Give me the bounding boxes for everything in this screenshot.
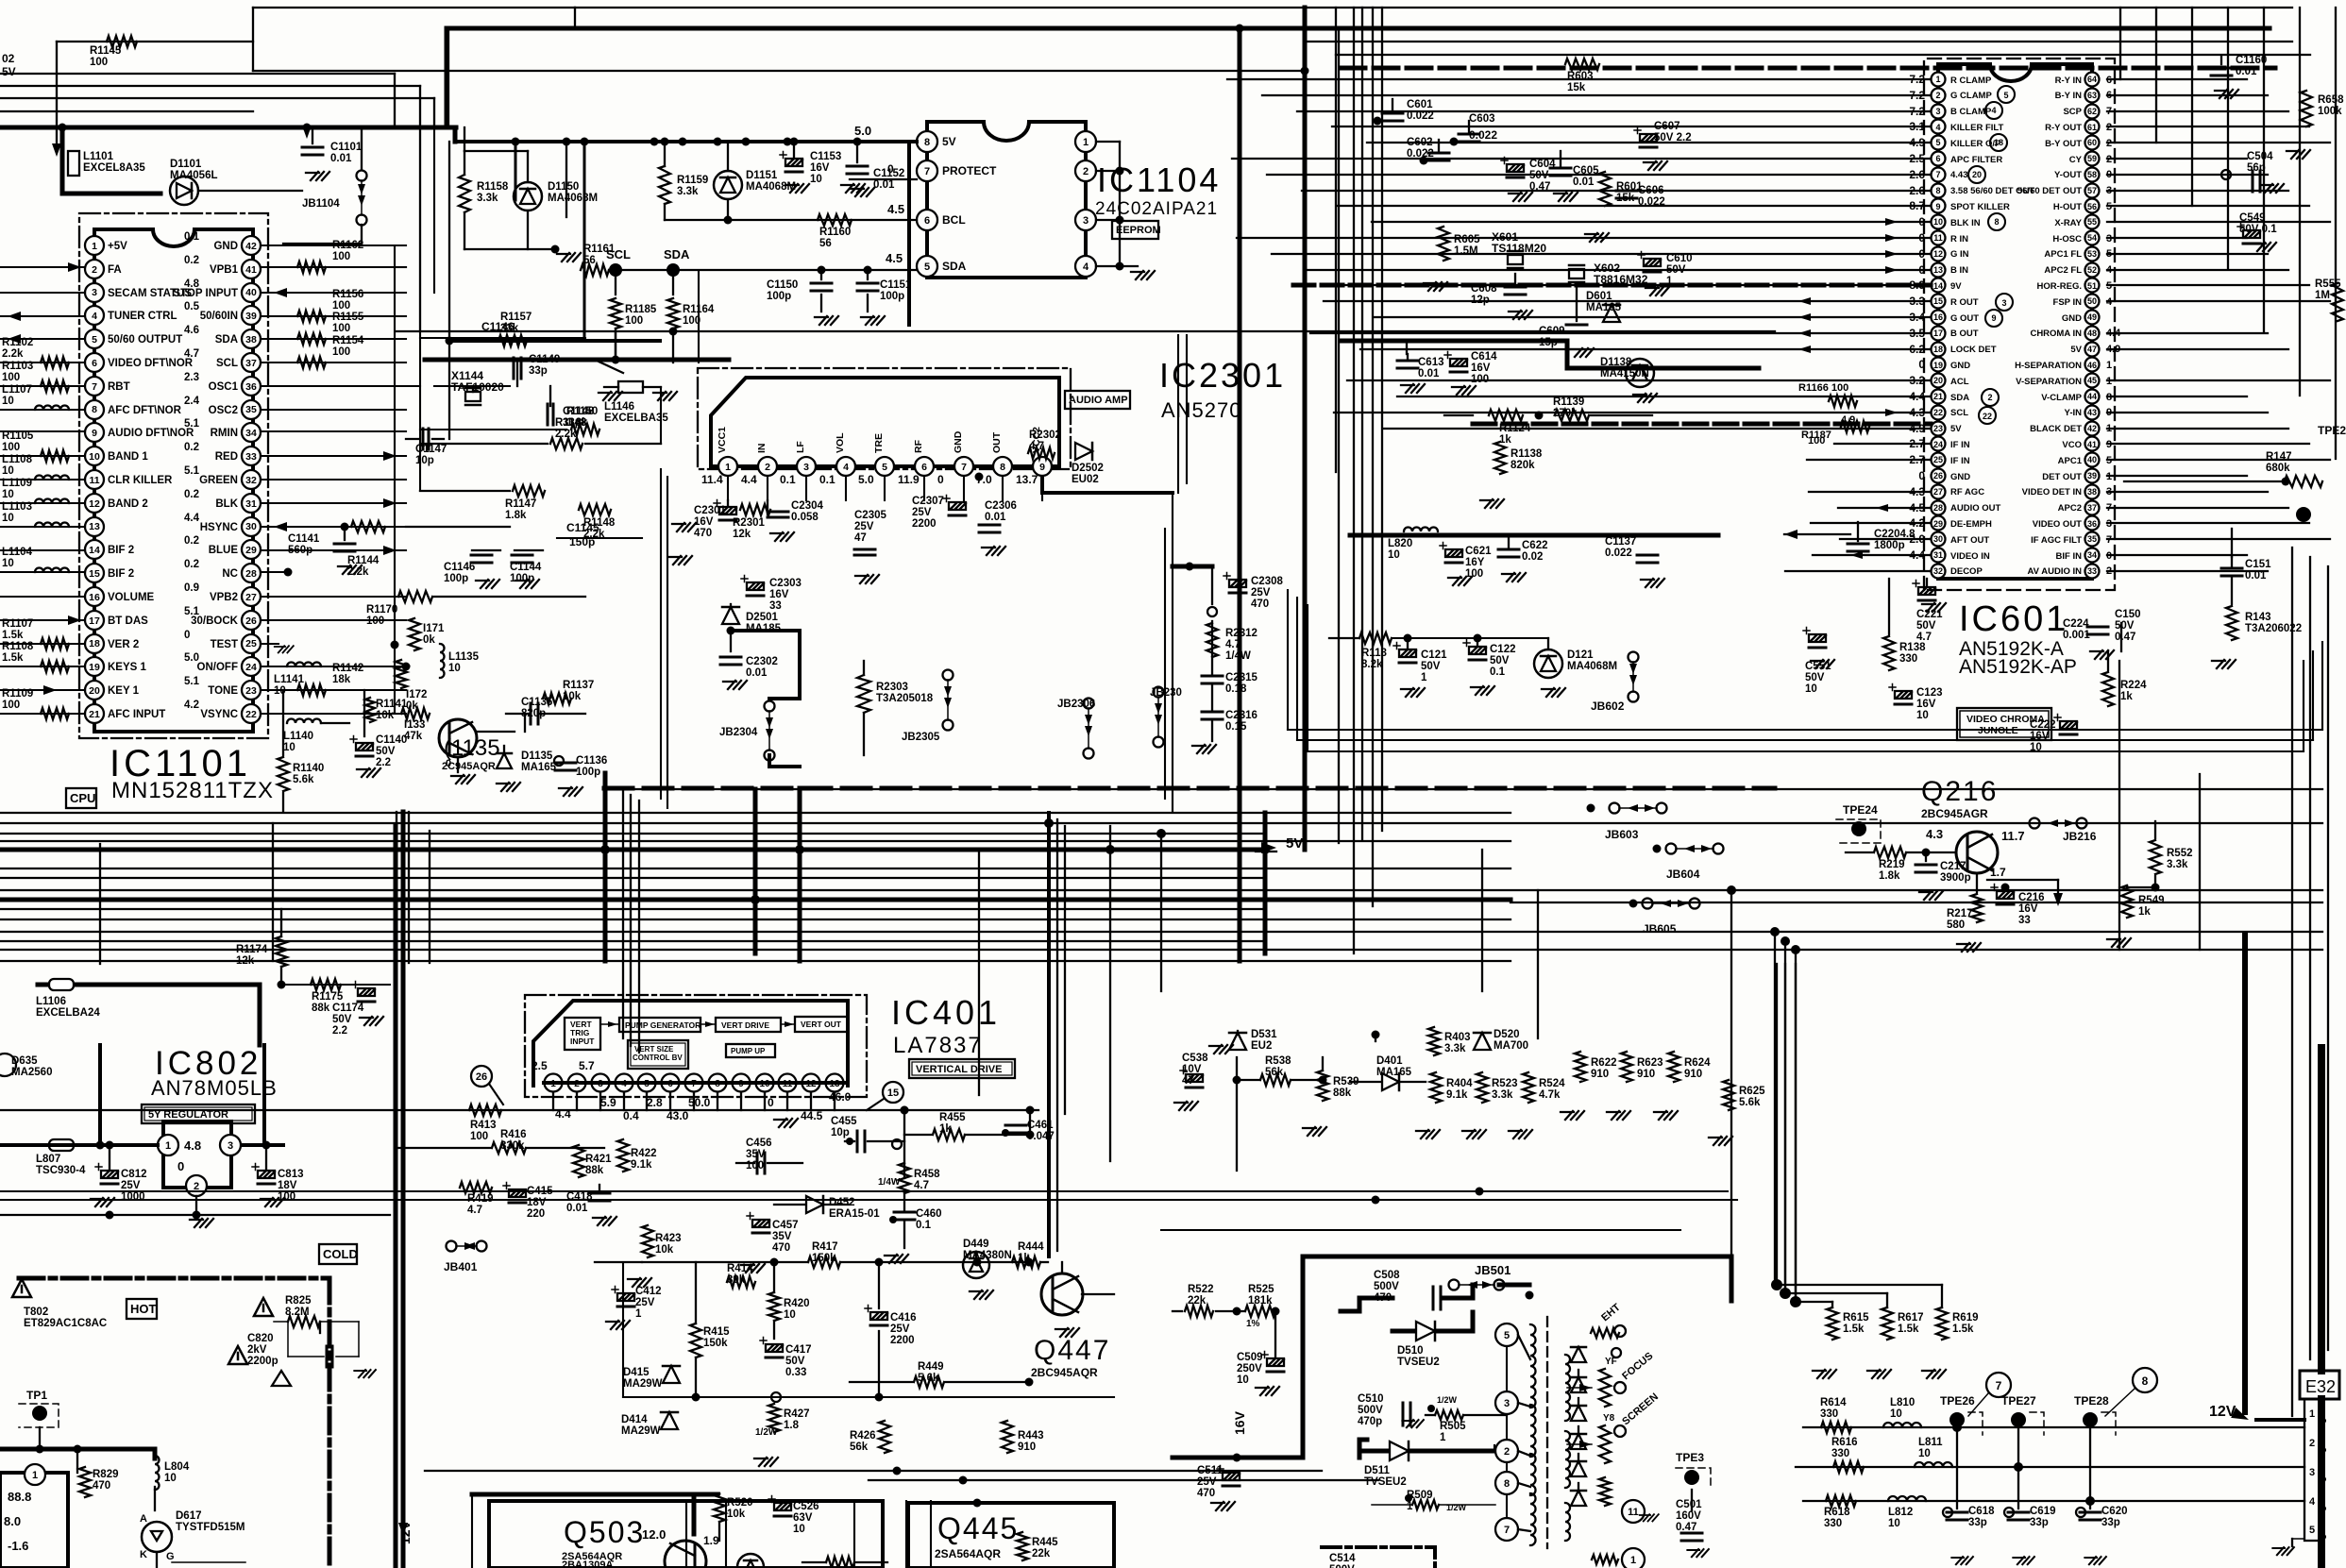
svg-text:14: 14 [1933, 281, 1943, 291]
svg-text:1.7: 1.7 [1990, 866, 2006, 879]
svg-text:0.01: 0.01 [566, 1203, 588, 1214]
svg-text:X-RAY: X-RAY [2054, 218, 2082, 228]
svg-text:13: 13 [1933, 265, 1943, 275]
svg-text:42: 42 [2087, 424, 2097, 433]
svg-text:32: 32 [245, 475, 257, 486]
svg-text:1.5k: 1.5k [1952, 1324, 1974, 1335]
svg-text:0.5: 0.5 [184, 301, 200, 312]
svg-text:AFC INPUT: AFC INPUT [108, 709, 165, 720]
svg-text:INPUT: INPUT [570, 1037, 595, 1046]
svg-text:I171: I171 [423, 623, 445, 634]
svg-text:-1.6: -1.6 [8, 1539, 28, 1553]
svg-text:33p: 33p [2101, 1517, 2120, 1528]
svg-text:2kV: 2kV [247, 1344, 267, 1356]
svg-text:R552: R552 [2167, 848, 2193, 859]
svg-text:5: 5 [1935, 138, 1940, 147]
svg-text:330: 330 [1899, 653, 1917, 665]
svg-text:1: 1 [1666, 276, 1673, 287]
svg-text:B-Y IN: B-Y IN [2055, 91, 2082, 101]
svg-text:21: 21 [1933, 392, 1943, 401]
svg-text:L1101: L1101 [83, 151, 114, 162]
svg-text:1.8k: 1.8k [566, 417, 588, 429]
svg-text:R2312: R2312 [1225, 628, 1257, 639]
svg-text:42: 42 [245, 241, 257, 252]
svg-text:R426: R426 [850, 1430, 876, 1442]
svg-text:330k: 330k [500, 1140, 525, 1152]
svg-text:910: 910 [1684, 1069, 1702, 1080]
svg-text:25V: 25V [1197, 1476, 1217, 1488]
svg-text:29: 29 [245, 545, 257, 556]
svg-text:33: 33 [769, 600, 782, 612]
svg-text:BCL: BCL [942, 213, 966, 227]
svg-text:16V: 16V [1232, 1410, 1247, 1435]
svg-text:5.1: 5.1 [184, 606, 200, 617]
svg-text:100: 100 [2, 700, 20, 711]
svg-text:STOP INPUT: STOP INPUT [173, 288, 238, 299]
svg-text:1/4W: 1/4W [1225, 650, 1251, 662]
svg-text:R523: R523 [1492, 1078, 1518, 1089]
svg-text:3: 3 [2309, 1467, 2315, 1478]
svg-text:ON/OFF: ON/OFF [197, 662, 238, 673]
svg-text:VER 2: VER 2 [108, 639, 139, 650]
svg-text:7: 7 [92, 381, 97, 393]
svg-text:5.9: 5.9 [600, 1096, 616, 1109]
svg-text:H-OUT: H-OUT [2053, 202, 2082, 212]
svg-text:I172: I172 [406, 689, 427, 700]
svg-text:1: 1 [1421, 672, 1427, 683]
svg-text:VIDEO IN: VIDEO IN [1950, 551, 1990, 562]
svg-text:35: 35 [2087, 534, 2097, 544]
svg-text:TPE24: TPE24 [1843, 803, 1878, 817]
svg-text:NC: NC [222, 568, 238, 580]
svg-text:100: 100 [332, 251, 350, 262]
svg-text:1: 1 [1440, 1432, 1446, 1443]
svg-text:10: 10 [2, 396, 14, 407]
svg-text:0.01: 0.01 [746, 667, 768, 679]
svg-text:56: 56 [583, 255, 596, 266]
svg-text:6: 6 [924, 215, 930, 227]
svg-text:R1162: R1162 [332, 240, 363, 251]
svg-text:30: 30 [1933, 534, 1943, 544]
svg-text:100: 100 [1465, 568, 1483, 580]
svg-text:COLD: COLD [323, 1247, 358, 1261]
svg-text:250V: 250V [1237, 1363, 1262, 1374]
svg-text:11: 11 [89, 475, 99, 486]
svg-text:Y8: Y8 [1603, 1413, 1615, 1424]
svg-text:13: 13 [89, 521, 100, 532]
svg-text:Q216: Q216 [1921, 776, 1998, 807]
svg-text:10: 10 [1805, 683, 1817, 695]
svg-text:D511: D511 [1364, 1465, 1390, 1476]
svg-text:JB603: JB603 [1605, 828, 1639, 841]
svg-text:1: 1 [2106, 360, 2112, 371]
svg-text:OSC1: OSC1 [209, 381, 239, 393]
svg-text:R615: R615 [1843, 1312, 1869, 1324]
svg-text:R1160: R1160 [819, 227, 851, 238]
svg-text:51: 51 [2087, 281, 2097, 291]
svg-text:AUDIO AMP: AUDIO AMP [1069, 395, 1128, 406]
svg-text:47: 47 [2087, 345, 2097, 354]
svg-text:34: 34 [2087, 550, 2097, 560]
svg-text:0.01: 0.01 [2245, 570, 2267, 582]
svg-text:10: 10 [1388, 549, 1400, 561]
svg-text:58: 58 [2087, 170, 2097, 179]
svg-text:R618: R618 [1824, 1507, 1850, 1518]
svg-text:BAND 1: BAND 1 [108, 451, 148, 463]
svg-text:3.3k: 3.3k [1444, 1043, 1466, 1054]
svg-text:VIDEO DFT\NOR: VIDEO DFT\NOR [108, 358, 194, 369]
svg-text:910: 910 [1591, 1069, 1609, 1080]
svg-text:C606: C606 [1638, 185, 1664, 196]
svg-text:JB401: JB401 [444, 1260, 478, 1273]
svg-text:1: 1 [1935, 75, 1940, 84]
svg-text:C224: C224 [2063, 618, 2089, 630]
svg-text:63: 63 [2087, 91, 2097, 100]
svg-text:0.1: 0.1 [184, 231, 200, 243]
svg-text:5.0: 5.0 [854, 124, 871, 138]
svg-text:27: 27 [1933, 487, 1943, 497]
svg-text:R1145: R1145 [90, 45, 122, 57]
svg-text:C549: C549 [2239, 212, 2266, 224]
svg-text:1: 1 [92, 241, 97, 252]
svg-text:7: 7 [961, 462, 967, 473]
svg-text:10: 10 [1933, 217, 1943, 227]
svg-text:R1156: R1156 [332, 289, 363, 300]
svg-text:500V: 500V [1329, 1564, 1355, 1568]
svg-text:MA4068M: MA4068M [1567, 661, 1617, 672]
svg-text:0.47: 0.47 [2115, 632, 2135, 643]
svg-text:10: 10 [1888, 1518, 1900, 1529]
svg-text:C2302: C2302 [746, 656, 778, 667]
svg-text:19: 19 [1933, 361, 1943, 370]
svg-text:ERA15-01: ERA15-01 [829, 1208, 880, 1220]
svg-text:0.2: 0.2 [184, 489, 199, 500]
svg-text:4: 4 [92, 311, 97, 322]
svg-text:L1108: L1108 [2, 454, 33, 465]
svg-text:7: 7 [1996, 1379, 2002, 1392]
svg-text:R1140: R1140 [293, 763, 324, 774]
svg-text:1k: 1k [2138, 906, 2151, 918]
svg-text:5.1: 5.1 [184, 418, 200, 430]
svg-text:SDA: SDA [664, 247, 690, 261]
svg-text:TPE28: TPE28 [2074, 1394, 2109, 1408]
svg-text:JB605: JB605 [1643, 922, 1677, 936]
svg-text:+5V: +5V [108, 241, 127, 252]
svg-text:33p: 33p [1968, 1517, 1987, 1528]
svg-text:0.1: 0.1 [819, 473, 835, 486]
svg-text:18V: 18V [527, 1197, 547, 1208]
svg-text:25V: 25V [912, 507, 932, 518]
svg-text:3: 3 [1935, 107, 1940, 116]
svg-text:18: 18 [1933, 345, 1943, 354]
svg-text:5.6k: 5.6k [918, 1373, 939, 1384]
svg-text:21: 21 [89, 709, 100, 720]
svg-text:3: 3 [2001, 298, 2006, 308]
svg-text:52: 52 [2087, 265, 2097, 275]
svg-text:2SA564AQR: 2SA564AQR [935, 1547, 1001, 1560]
svg-text:2.2: 2.2 [332, 1025, 347, 1037]
svg-text:1: 1 [32, 1470, 38, 1481]
svg-text:4: 4 [1935, 123, 1940, 132]
svg-text:C2307: C2307 [912, 496, 944, 507]
svg-text:45: 45 [2087, 376, 2097, 385]
svg-text:R505: R505 [1440, 1421, 1466, 1432]
svg-text:VCC1: VCC1 [717, 427, 728, 453]
svg-text:L820: L820 [1388, 538, 1412, 549]
svg-text:MA165: MA165 [521, 762, 557, 773]
svg-text:9V: 9V [1950, 281, 1962, 292]
svg-text:C2303: C2303 [769, 578, 802, 589]
svg-text:AN5192K-AP: AN5192K-AP [1959, 656, 2077, 678]
svg-text:470: 470 [1197, 1488, 1215, 1499]
svg-text:RED: RED [215, 451, 238, 463]
svg-text:1: 1 [165, 1140, 171, 1152]
svg-text:56/60 DET OUT: 56/60 DET OUT [2017, 186, 2082, 196]
svg-text:57: 57 [2087, 186, 2097, 195]
svg-text:TP1: TP1 [26, 1389, 47, 1402]
svg-text:33p: 33p [2030, 1517, 2049, 1528]
svg-text:88k: 88k [585, 1165, 604, 1176]
svg-text:D401: D401 [1376, 1055, 1403, 1067]
svg-text:6: 6 [1935, 154, 1940, 163]
svg-text:330: 330 [1824, 1518, 1842, 1529]
svg-text:100p: 100p [576, 767, 600, 778]
svg-text:0: 0 [1918, 358, 1925, 371]
svg-text:B IN: B IN [1950, 265, 1968, 276]
svg-text:38: 38 [2087, 487, 2097, 497]
svg-text:R1137: R1137 [563, 680, 594, 691]
svg-text:E32: E32 [2305, 1377, 2336, 1396]
svg-text:5Y REGULATOR: 5Y REGULATOR [148, 1109, 228, 1121]
svg-text:5.0: 5.0 [184, 652, 199, 664]
svg-text:0.022: 0.022 [1605, 548, 1632, 559]
svg-text:G: G [166, 1551, 175, 1562]
svg-text:35V: 35V [772, 1231, 792, 1242]
svg-text:C614: C614 [1471, 351, 1497, 362]
svg-text:C417: C417 [785, 1344, 812, 1356]
svg-text:33: 33 [2087, 566, 2097, 576]
svg-text:D415: D415 [623, 1367, 650, 1378]
svg-text:1: 1 [1083, 137, 1089, 148]
svg-text:20: 20 [1972, 170, 1982, 179]
svg-text:2200p: 2200p [247, 1356, 278, 1367]
svg-text:C526: C526 [793, 1501, 819, 1512]
svg-text:20: 20 [89, 685, 100, 697]
svg-text:8: 8 [92, 404, 97, 415]
svg-text:16V: 16V [769, 589, 789, 600]
svg-text:55: 55 [2087, 217, 2097, 227]
svg-text:9: 9 [1935, 202, 1940, 211]
svg-text:16V: 16V [2018, 903, 2038, 915]
svg-text:R-Y OUT: R-Y OUT [2045, 123, 2082, 133]
svg-text:2.8: 2.8 [647, 1096, 663, 1109]
svg-text:C603: C603 [1469, 113, 1495, 125]
svg-text:1.5k: 1.5k [1843, 1324, 1865, 1335]
svg-text:4.6: 4.6 [184, 325, 199, 336]
svg-text:JB2306: JB2306 [1057, 699, 1095, 710]
svg-text:88.8: 88.8 [8, 1490, 31, 1504]
svg-text:SDA: SDA [942, 260, 967, 273]
svg-text:0.18: 0.18 [1225, 683, 1247, 695]
svg-text:53: 53 [2087, 249, 2097, 259]
svg-text:0.058: 0.058 [791, 512, 819, 523]
svg-text:50V 0.1: 50V 0.1 [2239, 224, 2277, 235]
svg-text:3.3k: 3.3k [477, 193, 498, 204]
svg-text:C501: C501 [1676, 1499, 1702, 1510]
svg-text:TPE21: TPE21 [2318, 424, 2346, 437]
svg-text:25V: 25V [635, 1297, 655, 1308]
svg-text:R1138: R1138 [1511, 448, 1543, 460]
svg-text:EEPROM: EEPROM [1116, 225, 1161, 236]
svg-text:12k: 12k [733, 529, 751, 540]
svg-text:17: 17 [89, 615, 100, 627]
svg-text:R555: R555 [2315, 278, 2341, 290]
svg-text:R603: R603 [1567, 71, 1594, 82]
svg-text:TEST: TEST [211, 639, 238, 650]
svg-text:1k: 1k [939, 1123, 952, 1135]
svg-text:C504: C504 [2247, 151, 2273, 162]
svg-text:IC401: IC401 [891, 993, 1001, 1032]
svg-text:L1106: L1106 [36, 996, 66, 1007]
svg-text:2.5: 2.5 [532, 1059, 548, 1072]
svg-text:270k: 270k [1553, 408, 1578, 419]
svg-text:R444: R444 [1018, 1241, 1044, 1253]
svg-text:RF AGC: RF AGC [1950, 487, 1984, 497]
svg-text:16: 16 [89, 592, 100, 603]
svg-text:R-Y IN: R-Y IN [2055, 76, 2082, 86]
svg-text:1k: 1k [2120, 691, 2133, 702]
svg-text:D1151: D1151 [746, 170, 778, 181]
svg-text:5.6k: 5.6k [293, 774, 314, 785]
svg-text:10: 10 [2, 489, 14, 500]
svg-text:AFC DFT\NOR: AFC DFT\NOR [108, 405, 182, 416]
svg-text:R1103: R1103 [2, 361, 33, 372]
svg-text:MA165: MA165 [1376, 1067, 1412, 1078]
svg-text:10: 10 [1890, 1408, 1902, 1420]
svg-text:C150: C150 [2115, 609, 2141, 620]
svg-text:10: 10 [89, 451, 100, 463]
svg-text:C2304: C2304 [791, 500, 823, 512]
svg-text:R2301: R2301 [733, 517, 765, 529]
svg-text:0.01: 0.01 [330, 153, 352, 164]
svg-text:IF AGC FILT: IF AGC FILT [2031, 535, 2082, 546]
svg-text:G OUT: G OUT [1950, 313, 1979, 324]
svg-text:1.5M: 1.5M [1454, 245, 1478, 257]
svg-text:MN152811TZX: MN152811TZX [111, 778, 274, 803]
svg-text:3: 3 [92, 287, 97, 298]
svg-text:OUT: OUT [991, 431, 1003, 453]
svg-text:R OUT: R OUT [1950, 297, 1979, 308]
svg-text:100: 100 [2, 372, 20, 383]
svg-text:R522: R522 [1188, 1284, 1214, 1295]
svg-text:580: 580 [1947, 919, 1965, 931]
svg-text:2BC945AQR: 2BC945AQR [1031, 1366, 1098, 1379]
svg-text:16Y: 16Y [1465, 557, 1485, 568]
svg-text:0.01: 0.01 [1418, 368, 1440, 379]
svg-text:LA7837: LA7837 [893, 1033, 983, 1058]
svg-text:R524: R524 [1539, 1078, 1565, 1089]
svg-text:C2316: C2316 [1225, 710, 1257, 721]
svg-text:BLUE: BLUE [209, 545, 239, 556]
svg-text:16: 16 [1933, 312, 1943, 322]
svg-text:0.47: 0.47 [1529, 181, 1550, 193]
svg-text:L1104: L1104 [2, 547, 33, 558]
svg-text:Q447: Q447 [1034, 1335, 1110, 1366]
svg-text:22: 22 [1933, 408, 1943, 417]
svg-text:MA29W: MA29W [621, 1425, 661, 1437]
svg-text:49: 49 [2087, 312, 2097, 322]
svg-text:330: 330 [1831, 1448, 1849, 1459]
svg-text:R1105: R1105 [2, 430, 34, 442]
svg-text:APC2 FL: APC2 FL [2044, 265, 2082, 276]
svg-text:910: 910 [1637, 1069, 1655, 1080]
svg-text:1: 1 [635, 1308, 642, 1320]
svg-text:V-CLAMP: V-CLAMP [2041, 393, 2082, 403]
svg-text:C509: C509 [1237, 1352, 1263, 1363]
svg-text:C1146: C1146 [481, 320, 515, 333]
svg-text:1k: 1k [1018, 1253, 1030, 1264]
svg-text:50V: 50V [1805, 672, 1825, 683]
svg-text:T8816M32: T8816M32 [1594, 273, 1648, 286]
svg-text:GREEN: GREEN [199, 475, 238, 486]
svg-text:R147: R147 [2266, 451, 2292, 463]
svg-text:4.5: 4.5 [887, 202, 904, 216]
svg-text:SDA: SDA [1950, 393, 1969, 403]
svg-text:C122: C122 [1490, 644, 1516, 655]
svg-text:PROTECT: PROTECT [942, 164, 997, 177]
svg-text:D531: D531 [1251, 1029, 1277, 1040]
svg-text:43: 43 [2087, 408, 2097, 417]
svg-text:62: 62 [2087, 107, 2097, 116]
svg-text:VIDEO DET IN: VIDEO DET IN [2022, 487, 2082, 497]
svg-text:0.01: 0.01 [1573, 177, 1595, 188]
svg-text:C610: C610 [1666, 253, 1693, 264]
svg-text:TONE: TONE [208, 685, 238, 697]
svg-text:CY: CY [2069, 155, 2083, 165]
svg-text:C605: C605 [1573, 165, 1599, 177]
svg-text:BLACK DET: BLACK DET [2030, 424, 2082, 434]
svg-text:R1174: R1174 [236, 944, 268, 955]
svg-text:R416: R416 [500, 1129, 527, 1140]
svg-text:GND: GND [1950, 472, 1970, 482]
svg-text:VERTICAL DRIVE: VERTICAL DRIVE [916, 1064, 1002, 1075]
svg-text:24: 24 [1933, 440, 1943, 449]
svg-text:4: 4 [1083, 261, 1089, 273]
svg-text:46.0: 46.0 [829, 1090, 852, 1104]
svg-text:C551: C551 [1805, 661, 1831, 672]
svg-text:1: 1 [2309, 1408, 2315, 1420]
svg-text:10: 10 [810, 174, 822, 185]
svg-text:R625: R625 [1739, 1086, 1765, 1097]
svg-text:R1150: R1150 [566, 406, 598, 417]
svg-text:2.3: 2.3 [184, 372, 199, 383]
svg-text:L1103: L1103 [2, 501, 32, 513]
svg-text:C457: C457 [772, 1220, 799, 1231]
svg-text:35: 35 [245, 404, 257, 415]
svg-text:20: 20 [1933, 376, 1943, 385]
svg-text:R1141: R1141 [376, 699, 408, 710]
svg-text:R2303: R2303 [876, 682, 908, 693]
svg-text:R224: R224 [2120, 680, 2147, 691]
svg-text:39: 39 [2087, 471, 2097, 481]
svg-text:EXCELBA24: EXCELBA24 [36, 1007, 100, 1019]
svg-text:9.1k: 9.1k [1446, 1089, 1468, 1101]
svg-text:11.9: 11.9 [898, 473, 920, 486]
svg-text:3: 3 [1083, 215, 1089, 227]
svg-text:5V: 5V [2, 65, 16, 78]
svg-text:100p: 100p [510, 573, 534, 584]
svg-text:5V: 5V [942, 135, 956, 148]
